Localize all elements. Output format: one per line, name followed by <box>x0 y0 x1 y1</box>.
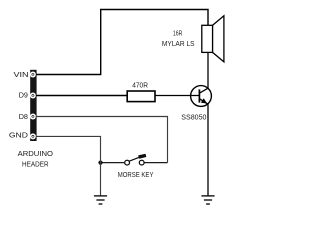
pin VIN <box>30 72 36 78</box>
transistor Q1 emitter arrow <box>201 98 207 103</box>
svg-text:470R: 470R <box>132 80 148 89</box>
ground right <box>201 196 214 204</box>
arduino header connector body <box>30 70 36 141</box>
svg-text:D9: D9 <box>19 91 28 100</box>
wire VIN to speaker top rail <box>36 10 208 75</box>
pin D9 <box>30 93 36 99</box>
wire D9 to resistor <box>36 95 127 97</box>
pin D8 <box>30 114 36 120</box>
speaker LS1 cone <box>213 16 224 62</box>
wire speaker to collector <box>207 52 209 88</box>
switch S1 morse key <box>125 154 147 165</box>
wire key right segment <box>144 162 167 164</box>
transistor Q1 emitter stroke <box>200 99 208 104</box>
svg-text:ARDUINO: ARDUINO <box>18 149 54 158</box>
wire D8 to key right terminal <box>36 117 168 163</box>
wire key left to junction <box>101 162 125 164</box>
label 16R MYLAR LS <box>162 29 195 48</box>
transistor Q1 base bar <box>198 89 200 102</box>
svg-text:GND: GND <box>9 130 28 139</box>
svg-text:VIN: VIN <box>14 70 29 79</box>
svg-text:MYLAR LS: MYLAR LS <box>162 39 195 48</box>
resistor R1 <box>127 91 155 102</box>
pin GND <box>30 133 36 139</box>
svg-text:16R: 16R <box>173 29 183 38</box>
label ARDUINO HEADER <box>18 149 54 168</box>
wire GND to ground <box>36 136 101 195</box>
transistor Q1 body circle <box>191 86 212 107</box>
svg-text:MORSE KEY: MORSE KEY <box>118 170 154 179</box>
svg-text:D8: D8 <box>19 112 28 121</box>
svg-text:HEADER: HEADER <box>22 159 49 168</box>
ground left <box>94 196 107 204</box>
wire emitter to ground <box>207 104 209 195</box>
transistor Q1 collector stroke <box>200 88 208 93</box>
speaker LS1 body <box>202 25 213 52</box>
wire resistor to base <box>155 95 199 97</box>
junction node <box>98 161 102 165</box>
svg-text:SS8050: SS8050 <box>181 113 206 122</box>
